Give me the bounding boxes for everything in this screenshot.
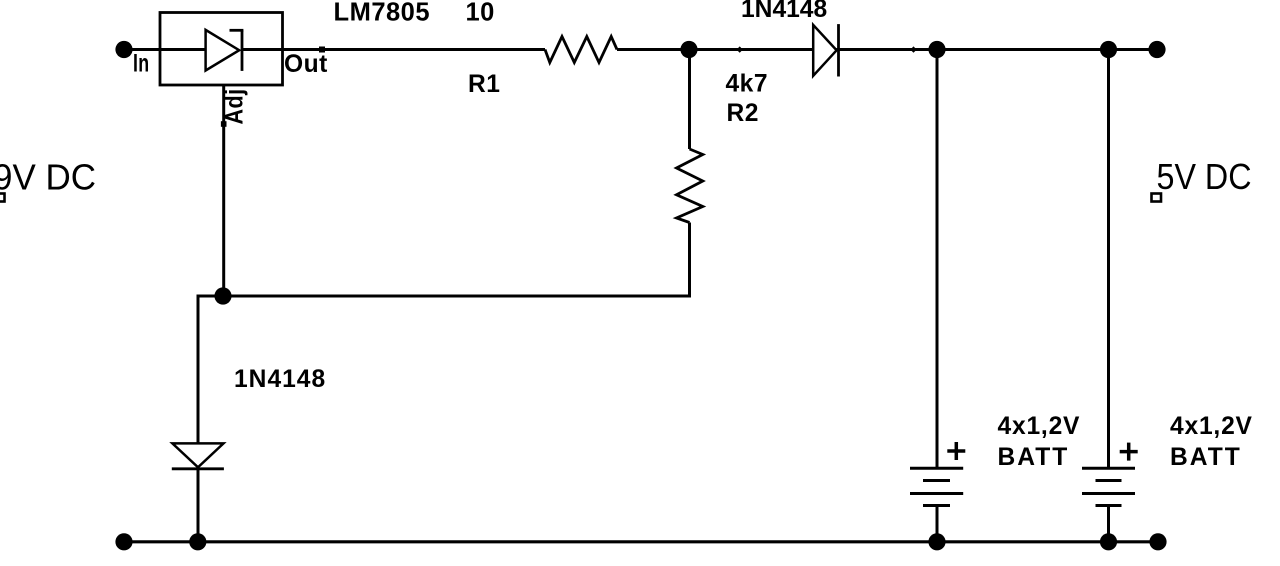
svg-text:4k7: 4k7 [726,70,769,97]
svg-text:Out: Out [284,51,328,78]
svg-text:1N4148: 1N4148 [234,366,326,393]
svg-text:4x1,2V: 4x1,2V [998,413,1081,440]
svg-text:In: In [133,51,150,78]
svg-text:R1: R1 [468,71,500,98]
svg-text:5V DC: 5V DC [1157,156,1252,197]
svg-text:BATT: BATT [1170,444,1242,471]
svg-text:9V DC: 9V DC [0,157,96,198]
svg-text:4x1,2V: 4x1,2V [1170,413,1253,440]
svg-text:BATT: BATT [998,444,1070,471]
svg-text:R2: R2 [727,100,759,127]
svg-text:10: 10 [466,0,495,27]
svg-text:LM7805: LM7805 [334,0,431,27]
svg-text:Adj: Adj [222,89,249,125]
svg-text:1N4148: 1N4148 [741,0,827,23]
